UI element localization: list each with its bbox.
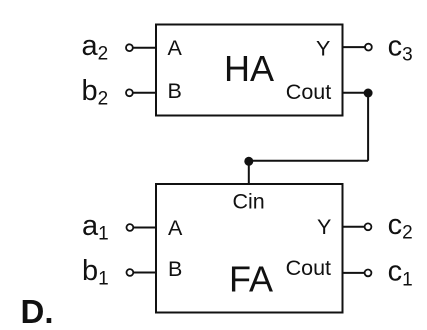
output terminal c2 [365,223,372,230]
U2 name label FA [229,259,273,300]
svg-text:A: A [168,36,183,60]
svg-text:Y: Y [317,215,331,239]
full-adder U2 box (FA) [156,184,343,313]
svg-text:c2: c2 [388,209,413,244]
svg-text:D.: D. [21,293,54,330]
output label c2 [388,209,413,244]
figure label D. [21,293,54,330]
output terminal c3 [365,44,372,51]
input terminal b1 [126,269,133,276]
U2 pin label Cin [233,190,265,214]
svg-text:c3: c3 [388,31,413,66]
wire U2.Cout to c1 terminal [342,272,365,274]
input label a1 [82,210,109,245]
input terminal a1 [126,224,133,231]
wire b2 to U1.B [133,92,157,94]
U1 pin label Y [316,36,330,60]
svg-text:a2: a2 [82,30,109,65]
svg-text:b2: b2 [82,75,109,110]
svg-text:c1: c1 [388,256,413,291]
wire a2 to U1.A [133,47,157,49]
input terminal a2 [126,44,133,51]
U1 pin label A [168,36,183,60]
input label b2 [82,75,109,110]
svg-text:Cout: Cout [286,256,331,280]
wire horizontal to Cin junction [249,160,368,162]
U2 pin label B [168,257,182,281]
U1 pin label Cout [286,80,331,104]
output terminal c1 [365,270,372,277]
U2 pin label Cout [286,256,331,280]
output label c1 [388,256,413,291]
junction dot at U1.Cout corner [364,89,373,98]
wire U1.Cout to junction [342,92,368,94]
svg-text:B: B [168,79,182,103]
input label a2 [82,30,109,65]
wire U2.Y to c2 terminal [342,226,365,228]
U1 name label HA [224,48,274,89]
svg-text:a1: a1 [82,210,109,245]
half-adder U1 box (HA) [156,25,343,116]
wire U1.Y to c3 terminal [342,46,365,48]
wire down into U2.Cin [248,161,250,185]
U2 pin label A [168,216,183,240]
wire b1 to U2.B [134,272,158,274]
svg-text:HA: HA [224,48,274,89]
svg-text:b1: b1 [82,255,109,290]
svg-text:Cin: Cin [233,190,265,214]
svg-text:B: B [168,257,182,281]
wire vertical down from Cout junction [367,93,369,161]
U1 pin label B [168,79,182,103]
svg-text:Y: Y [316,36,330,60]
U2 pin label Y [317,215,331,239]
svg-text:FA: FA [229,259,273,300]
input terminal b2 [126,89,133,96]
input label b1 [82,255,109,290]
junction dot at Cin corner [244,157,253,166]
svg-text:A: A [168,216,183,240]
output label c3 [388,31,413,66]
wire a1 to U2.A [134,227,158,229]
svg-text:Cout: Cout [286,80,331,104]
